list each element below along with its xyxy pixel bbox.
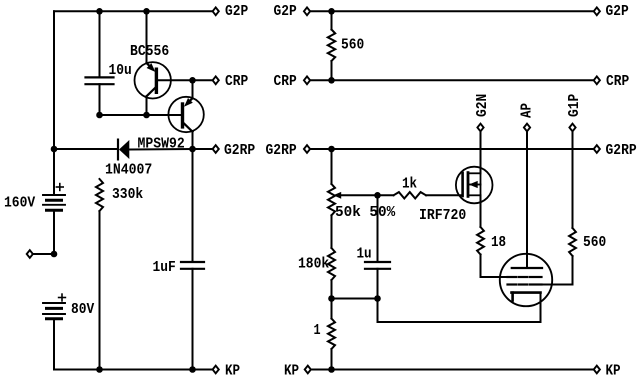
node G2RP (right section, left terminal) xyxy=(266,142,332,159)
transistor Q3 IRF720 (NMOS) xyxy=(419,167,493,224)
svg-text:G1P: G1P xyxy=(566,94,583,117)
junction 330k at KP rail xyxy=(96,366,103,373)
junction 1uF at KP rail xyxy=(189,366,196,373)
svg-text:G2P: G2P xyxy=(225,3,248,20)
svg-text:KP: KP xyxy=(606,363,621,380)
wire stub to mid-supply terminal xyxy=(33,253,54,255)
wire node A to Q2 base xyxy=(100,114,182,116)
wire 18 to tube screen grid xyxy=(481,276,509,278)
resistor 180k xyxy=(298,248,335,299)
node G2N terminal xyxy=(474,94,491,132)
node CRP (left section terminal) xyxy=(193,73,249,90)
svg-text:160V: 160V xyxy=(4,195,35,212)
svg-text:10u: 10u xyxy=(109,62,132,79)
node CRP (right section, right terminal) xyxy=(594,73,630,90)
resistor 1 xyxy=(314,299,336,370)
svg-text:330k: 330k xyxy=(112,186,143,203)
node G2P (right section, left terminal) xyxy=(274,3,332,20)
svg-text:G2RP: G2RP xyxy=(224,142,255,159)
svg-text:CRP: CRP xyxy=(225,73,248,90)
wire G2RP rail (right section) xyxy=(332,148,594,150)
transistor Q1 BC556 xyxy=(130,11,193,115)
svg-text:560: 560 xyxy=(583,234,606,251)
wire Q3 source to 18 xyxy=(480,195,482,227)
svg-text:1: 1 xyxy=(314,322,321,339)
wire left rail (bottom) xyxy=(53,319,55,370)
junction KP at 1 xyxy=(328,366,335,373)
wire CRP rail (right section) xyxy=(332,79,594,81)
wire left rail (top) xyxy=(53,11,55,195)
junction on top rail at Q1 emitter xyxy=(143,8,150,15)
junction at Q2 collector / 1uF top xyxy=(189,146,196,153)
junction G2RP at pot xyxy=(328,146,335,153)
junction at mid-supply tap xyxy=(51,251,58,258)
svg-text:180k: 180k xyxy=(298,256,329,273)
wire cathode return xyxy=(378,293,541,322)
svg-text:G2P: G2P xyxy=(606,3,629,20)
svg-text:G2N: G2N xyxy=(474,94,491,117)
junction node A (Q1 collector / Q2 base / 330k top) xyxy=(96,112,103,119)
junction G2RP at left rail xyxy=(51,146,58,153)
wire 180k junction to 1u junction xyxy=(332,298,378,300)
node CRP (right section, left terminal) xyxy=(274,73,332,90)
junction at Q1 collector xyxy=(143,112,150,119)
node G2P (left section terminal) xyxy=(213,3,249,20)
capacitor C1 10u xyxy=(86,11,132,115)
svg-text:G2P: G2P xyxy=(274,3,297,20)
svg-text:50k 50%: 50k 50% xyxy=(335,204,396,221)
svg-text:AP: AP xyxy=(519,103,536,118)
junction 180k / 1u bottom xyxy=(328,295,335,302)
wire top positive rail xyxy=(54,10,212,12)
wire pot wiper xyxy=(341,194,394,196)
node KP (right section, left terminal) xyxy=(284,363,332,380)
node G2P (right section, right terminal) xyxy=(594,3,629,20)
svg-text:18: 18 xyxy=(491,234,506,251)
tube V1 plate xyxy=(512,267,542,269)
node G2RP (right section, right terminal) xyxy=(594,142,637,159)
node G2RP (left section terminal) xyxy=(193,142,256,159)
svg-text:80V: 80V xyxy=(71,301,94,318)
svg-text:1u: 1u xyxy=(357,246,372,263)
svg-text:1uF: 1uF xyxy=(153,259,176,276)
svg-text:1k: 1k xyxy=(402,176,417,193)
wire G2N terminal to Q3 drain xyxy=(480,131,482,173)
svg-text:CRP: CRP xyxy=(274,73,297,90)
wire G2P rail (right section) xyxy=(332,10,594,12)
capacitor C2 1uF xyxy=(153,149,205,370)
junction CRP at 560 xyxy=(328,77,335,84)
svg-text:560: 560 xyxy=(341,37,364,54)
capacitor C3 1u xyxy=(357,195,391,298)
junction G2P at 560 xyxy=(328,8,335,15)
resistor 330k xyxy=(96,179,143,370)
wire 560 to tube control grid xyxy=(542,284,573,286)
svg-text:G2RP: G2RP xyxy=(606,142,637,159)
svg-text:CRP: CRP xyxy=(606,73,629,90)
node mid-supply terminal xyxy=(27,250,33,258)
junction on top rail at 10u cap xyxy=(96,8,103,15)
transistor Q2 MPSW92 xyxy=(138,80,204,152)
svg-text:G2RP: G2RP xyxy=(266,142,297,159)
node AP terminal xyxy=(519,103,536,131)
resistor 560 (G1P to grid) xyxy=(569,228,606,285)
wire 1k to Q3 gate xyxy=(426,194,462,196)
node KP (left section terminal) xyxy=(213,363,241,380)
junction wiper at 1u cap xyxy=(374,192,381,199)
wire G1P terminal to 560 xyxy=(572,131,574,228)
wire G2RP rail (left segment) xyxy=(54,148,118,150)
battery 80V xyxy=(43,294,94,319)
tube V1 control grid (dashed) xyxy=(508,283,542,285)
potentiometer 50k 50% xyxy=(328,149,396,248)
wire AP terminal to tube plate xyxy=(526,131,528,268)
svg-text:KP: KP xyxy=(225,363,240,380)
svg-text:KP: KP xyxy=(284,363,299,380)
tube V1 envelope xyxy=(500,254,552,306)
svg-text:IRF720: IRF720 xyxy=(419,207,466,224)
diode D1 1N4007 xyxy=(105,140,193,179)
wire KP rail (right section) xyxy=(332,369,594,371)
junction at CRP / Q1 base / Q2 emitter xyxy=(189,77,196,84)
wire left rail (between batteries upper) xyxy=(53,210,55,254)
node G1P terminal xyxy=(566,94,583,132)
resistor 18 xyxy=(477,227,506,277)
resistor 1k xyxy=(394,176,427,199)
junction 1u bottom / cathode return xyxy=(374,295,381,302)
battery 160V xyxy=(4,184,65,212)
tube V1 screen grid (dashed) xyxy=(508,276,542,278)
node KP (right section, right terminal) xyxy=(594,363,621,380)
tube V1 cathode xyxy=(512,293,541,301)
svg-text:BC556: BC556 xyxy=(130,43,169,60)
resistor R 560 (G2P to CRP) xyxy=(328,11,364,80)
wire KP rail (left section) xyxy=(54,369,212,371)
svg-text:1N4007: 1N4007 xyxy=(105,162,152,179)
